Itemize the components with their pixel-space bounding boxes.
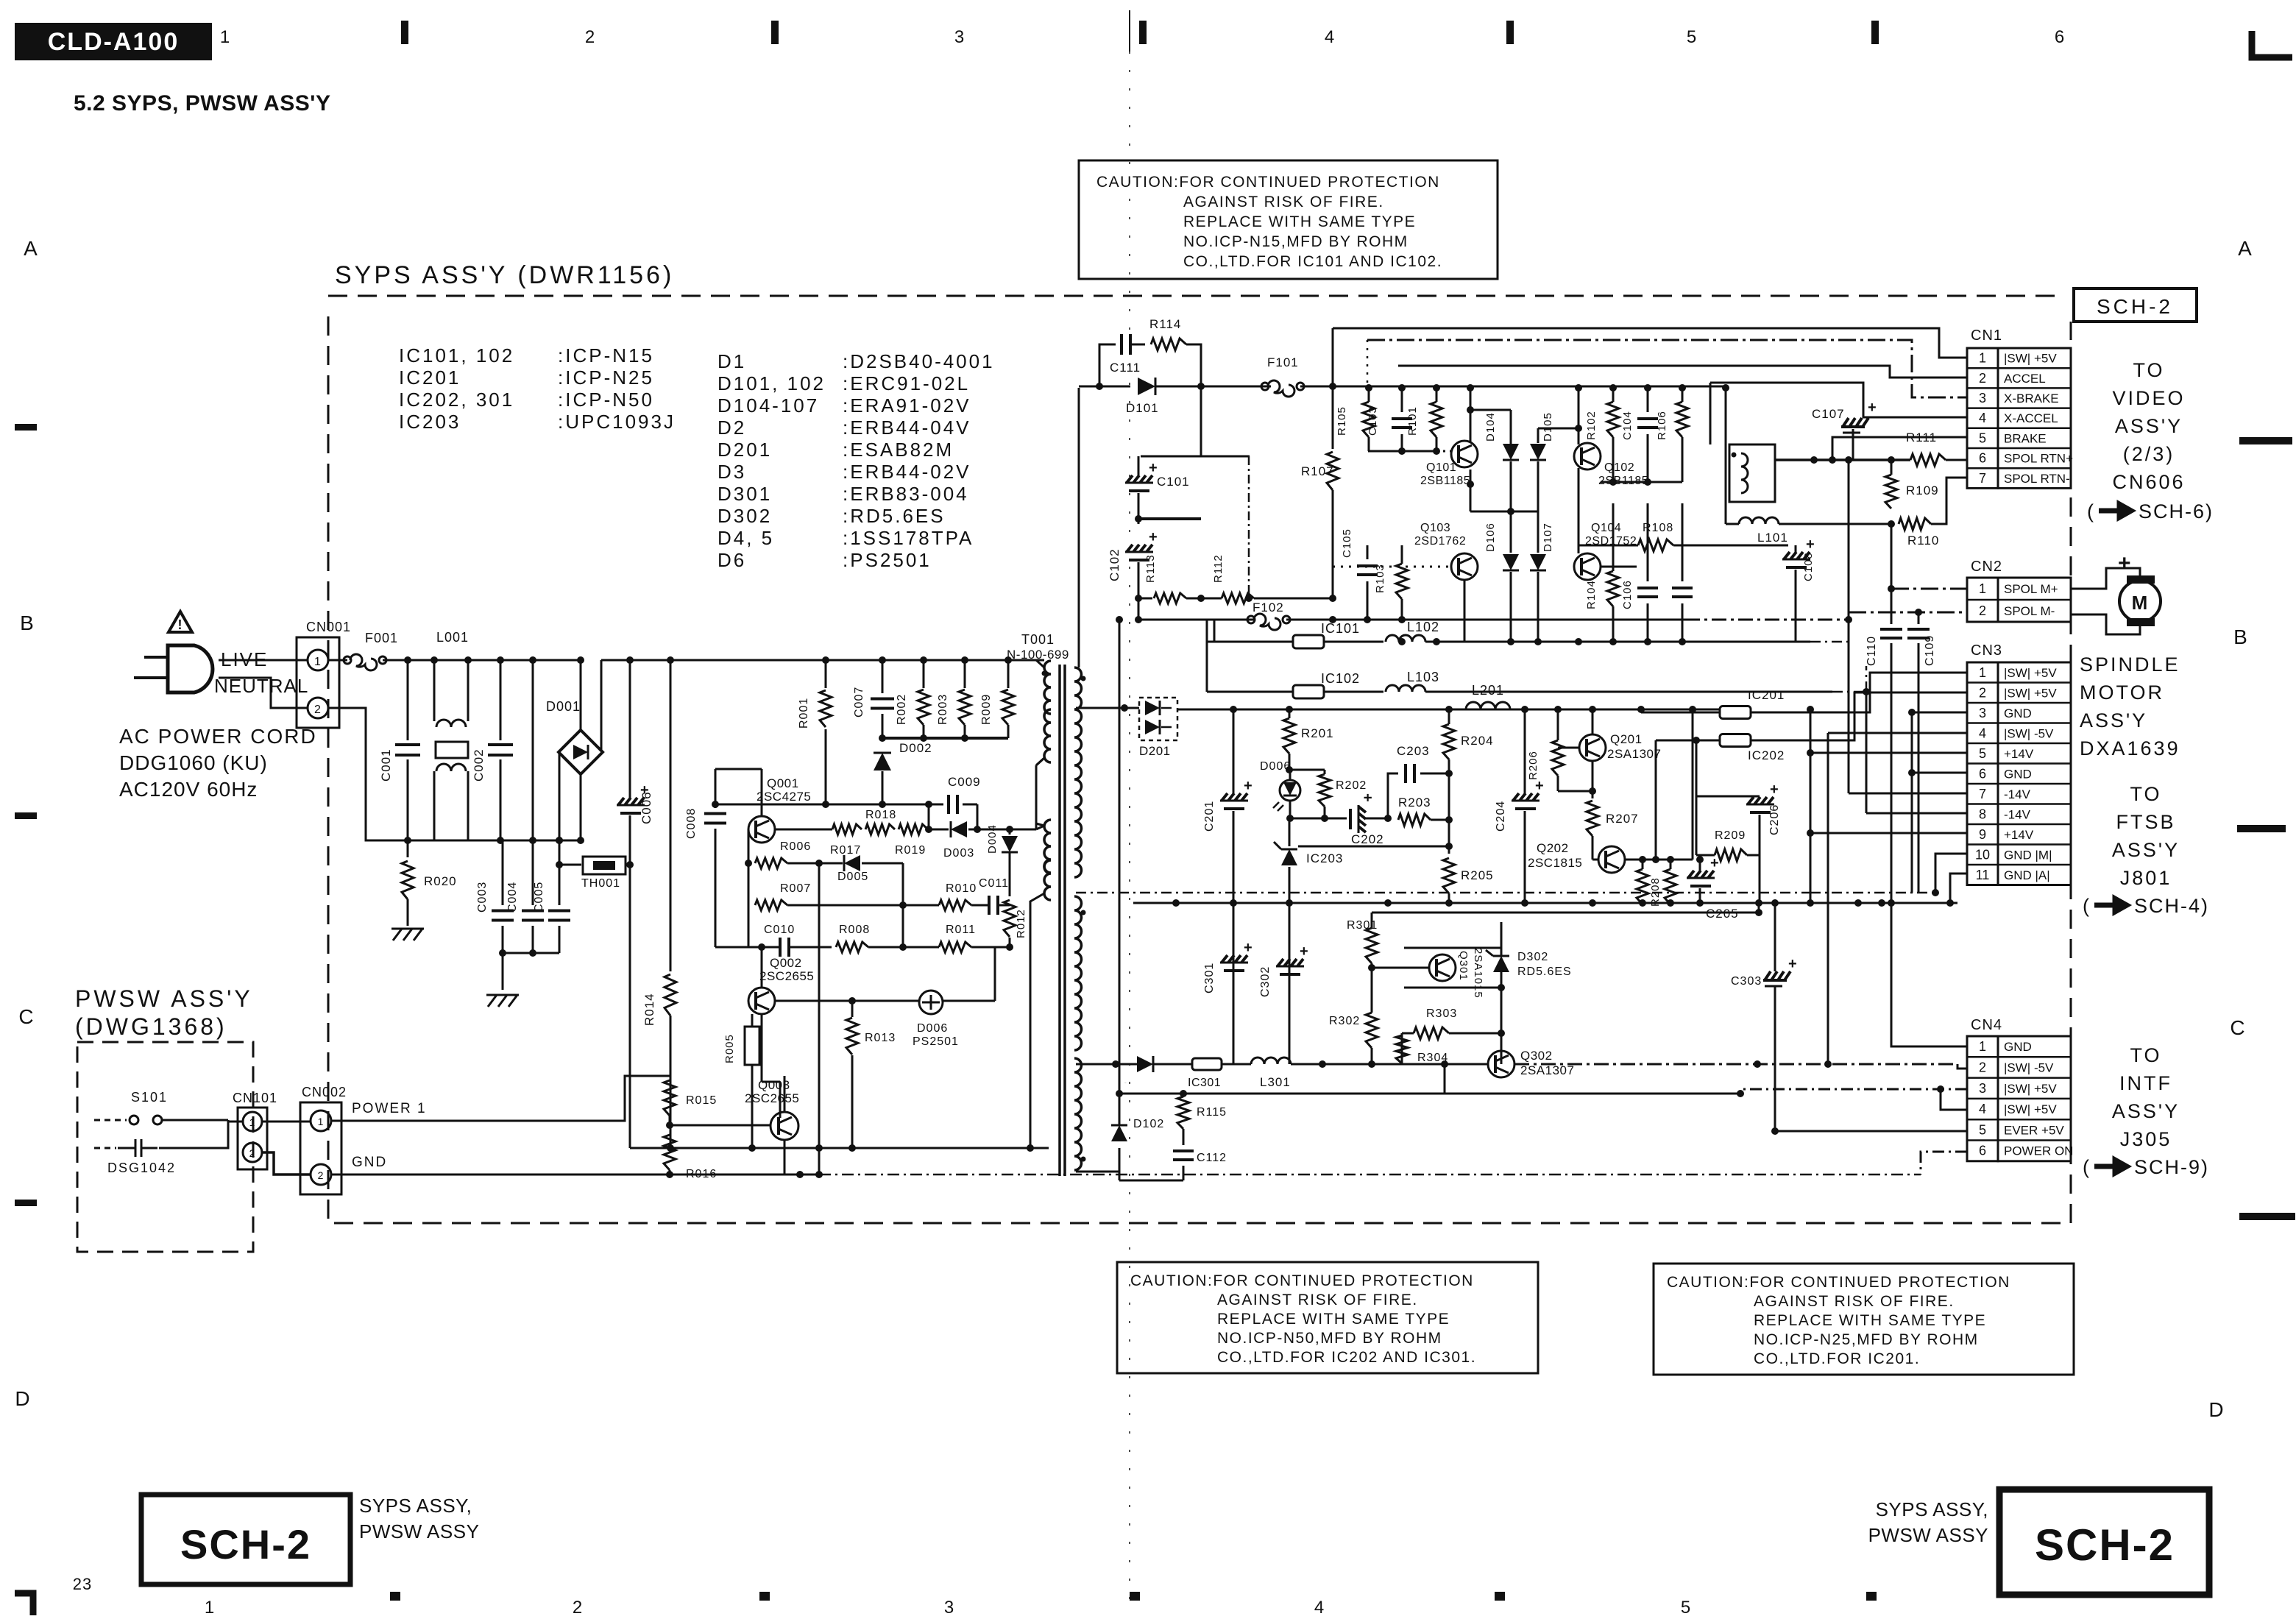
resistor R001: [825, 660, 827, 688]
svg-text:Q002: Q002: [770, 956, 802, 970]
resistor R005: [745, 1027, 759, 1065]
svg-text:R301: R301: [1347, 919, 1378, 932]
wire bridge DC+ up: [600, 660, 603, 751]
svg-text:Q101: Q101: [1426, 461, 1456, 474]
wire bridge AC top: [580, 660, 582, 730]
svg-text:(: (: [2083, 1156, 2090, 1178]
capacitor C202 electrolytic: [1290, 818, 1325, 820]
svg-text:|SW| +5V: |SW| +5V: [2004, 666, 2057, 680]
transformer T001 primary winding 2: [1036, 823, 1044, 826]
transistor Q301 2SA1015: [1429, 954, 1456, 981]
svg-text:NO.ICP-N50,MFD BY ROHM: NO.ICP-N50,MFD BY ROHM: [1217, 1330, 1442, 1347]
phase dots: [1081, 676, 1086, 681]
svg-text:5: 5: [1979, 431, 1986, 445]
svg-text:EVER +5V: EVER +5V: [2004, 1123, 2064, 1137]
GND rail 200: [1076, 892, 1810, 894]
svg-text:+: +: [1806, 536, 1815, 553]
svg-text:R202: R202: [1336, 779, 1367, 792]
capacitor C002: [500, 660, 502, 740]
svg-text:2SB1185: 2SB1185: [1420, 475, 1470, 487]
svg-text:6: 6: [1979, 766, 1986, 781]
wire Q202 collector top: [1692, 709, 1693, 860]
svg-text:+: +: [1149, 529, 1158, 545]
svg-text:23: 23: [73, 1575, 92, 1593]
diode D107: [1530, 554, 1546, 570]
svg-text:Q103: Q103: [1420, 522, 1450, 534]
svg-text::D2SB40-4001: :D2SB40-4001: [843, 350, 995, 372]
svg-text:R203: R203: [1398, 796, 1431, 809]
svg-text:C: C: [2230, 1016, 2245, 1039]
svg-text:D: D: [15, 1387, 30, 1410]
svg-text:J305: J305: [2120, 1128, 2172, 1150]
resistor R201: [1283, 718, 1295, 754]
svg-text:+: +: [1300, 943, 1309, 960]
svg-text:R206: R206: [1527, 751, 1539, 780]
svg-text:(2/3): (2/3): [2123, 443, 2175, 465]
svg-text:R204: R204: [1461, 734, 1494, 748]
upper +SW rail: [1367, 387, 1726, 389]
svg-text:SCH-4): SCH-4): [2134, 895, 2209, 917]
svg-text:C107: C107: [1812, 407, 1845, 421]
shunt regulator IC203: [1289, 818, 1291, 846]
svg-text:NO.ICP-N15,MFD BY ROHM: NO.ICP-N15,MFD BY ROHM: [1183, 233, 1409, 250]
svg-text:TH001: TH001: [581, 877, 620, 890]
wire CN3 pin7 -14V: [1849, 793, 1967, 795]
svg-text:B: B: [2233, 626, 2248, 648]
svg-text:D005: D005: [837, 871, 868, 883]
caution note 1 box: [1079, 160, 1498, 279]
main neutral rail: [366, 840, 581, 842]
svg-text:Q102: Q102: [1604, 461, 1634, 474]
svg-text:D: D: [2208, 1398, 2224, 1421]
svg-text:DXA1639: DXA1639: [2080, 737, 2180, 759]
svg-text:R005: R005: [723, 1034, 736, 1063]
wire bridge bottom: [580, 774, 582, 840]
svg-text:F001: F001: [365, 631, 398, 645]
svg-text:C106: C106: [1621, 580, 1634, 609]
svg-text:R009: R009: [980, 694, 993, 725]
svg-text:A: A: [2238, 237, 2253, 260]
svg-text:C103: C103: [1367, 406, 1379, 436]
svg-text:C007: C007: [853, 687, 865, 718]
svg-text:ASS'Y: ASS'Y: [2112, 839, 2180, 861]
main AC top rail: [408, 659, 581, 662]
thermistor TH001: [559, 864, 581, 866]
wire CN2 pin2 SPOL M-: [1849, 612, 1967, 614]
svg-text:Q302: Q302: [1520, 1049, 1553, 1063]
svg-text:IC203: IC203: [1306, 851, 1343, 865]
wire CN4 pin6 POWER ON: [1921, 1152, 1967, 1175]
svg-text:4: 4: [1314, 1598, 1325, 1618]
svg-text::ERC91-02L: :ERC91-02L: [843, 372, 970, 394]
svg-text:2SC2655: 2SC2655: [759, 969, 814, 983]
wire CN3 pin4 SW-5V: [1828, 732, 1967, 734]
svg-text:C009: C009: [948, 775, 981, 789]
capacitor C204 electrolytic: [1524, 709, 1526, 795]
svg-text:C204: C204: [1495, 801, 1507, 832]
svg-text:AC POWER CORD: AC POWER CORD: [119, 725, 317, 748]
svg-text:SCH-6): SCH-6): [2139, 500, 2214, 522]
svg-text:M: M: [2132, 592, 2149, 614]
transformer core: [1058, 665, 1061, 1176]
svg-text:SYPS ASSY,: SYPS ASSY,: [1876, 1498, 1988, 1520]
svg-text:Q202: Q202: [1537, 841, 1569, 855]
resistor R019: [899, 824, 928, 835]
svg-text:R013: R013: [865, 1032, 896, 1044]
svg-text:8: 8: [1979, 807, 1986, 821]
svg-text:D001: D001: [546, 699, 581, 714]
rectifier D201 dashed box: [1139, 698, 1177, 740]
svg-text:D106: D106: [1484, 522, 1497, 552]
capacitor C009: [928, 804, 930, 829]
svg-text:R104: R104: [1585, 580, 1598, 609]
svg-text:R103: R103: [1374, 564, 1386, 593]
wire CN1 pin2: [1398, 366, 1967, 378]
svg-text:PWSW ASS'Y: PWSW ASS'Y: [75, 985, 253, 1012]
connector CN4 table: [1967, 1036, 1998, 1161]
wire Q104 emitter row R108: [1601, 566, 1637, 568]
svg-text:1: 1: [1979, 581, 1986, 596]
svg-text::1SS178TPA: :1SS178TPA: [843, 527, 974, 549]
svg-text:2SA1307: 2SA1307: [1520, 1063, 1574, 1077]
wire IC203 k: [1289, 846, 1449, 847]
+14 rail 200: [1177, 709, 1726, 711]
svg-text:INTF: INTF: [2119, 1072, 2172, 1094]
svg-text:R017: R017: [830, 844, 861, 857]
D102 branch: [1076, 1171, 1119, 1173]
diode D104: [1503, 444, 1519, 460]
svg-text:B: B: [20, 612, 35, 634]
primary return line: [715, 804, 929, 806]
resistor R017: [775, 829, 832, 831]
svg-text:R002: R002: [896, 694, 908, 725]
svg-text:F102: F102: [1252, 601, 1284, 614]
optocoupler D006 PS2501: [919, 991, 943, 1014]
resistor R114: [1151, 339, 1186, 350]
svg-text::ICP-N25: :ICP-N25: [558, 366, 654, 389]
wire CN2 pin1 SPOL M+: [1891, 588, 1967, 590]
svg-text:AGAINST RISK OF FIRE.: AGAINST RISK OF FIRE.: [1183, 194, 1384, 210]
resistor R102: [1607, 402, 1619, 437]
resistor R007: [748, 863, 750, 905]
vertical links cluster: [818, 863, 821, 1148]
resistor R106: [1676, 402, 1688, 437]
svg-text:+: +: [2118, 551, 2132, 575]
svg-text:2: 2: [1979, 1060, 1986, 1074]
svg-text:A: A: [24, 237, 38, 260]
capacitor C112: [1173, 1149, 1194, 1152]
capacitor C302 electrolytic: [1289, 903, 1291, 1064]
wire CN1 pin4: [1710, 383, 1967, 417]
svg-text:Q001: Q001: [767, 776, 799, 790]
svg-text:D105: D105: [1542, 412, 1554, 442]
svg-text:X-ACCEL: X-ACCEL: [2004, 411, 2058, 425]
svg-text:R113: R113: [1144, 554, 1157, 583]
SCH-2 title box bottom right: [1999, 1489, 2209, 1595]
wire L103 tail: [1832, 691, 1866, 693]
PWSW ASS'Y dashed boundary box: [77, 1042, 253, 1252]
svg-text:|SW| -5V: |SW| -5V: [2004, 1060, 2054, 1074]
secondary +B vertical: [1078, 388, 1080, 667]
svg-text:D006: D006: [917, 1022, 948, 1035]
svg-text:CN3: CN3: [1971, 642, 2002, 659]
wire CN3 pin5 +14V: [1810, 752, 1967, 754]
svg-text:D3: D3: [717, 461, 746, 483]
svg-text:D002: D002: [899, 741, 932, 755]
svg-text:2: 2: [314, 704, 322, 716]
svg-text:C: C: [18, 1005, 34, 1028]
svg-text:R010: R010: [946, 882, 977, 895]
-5V rail 300: [1076, 1063, 1116, 1066]
svg-text:1: 1: [220, 27, 230, 47]
svg-text:4: 4: [1979, 726, 1986, 740]
svg-text:RD5.6ES: RD5.6ES: [1517, 966, 1572, 978]
resistor R107: [1332, 386, 1334, 449]
svg-text:L103: L103: [1407, 670, 1439, 684]
svg-text:CN001: CN001: [306, 620, 351, 634]
svg-text:R115: R115: [1197, 1106, 1227, 1119]
svg-text:5.2 SYPS, PWSW ASS'Y: 5.2 SYPS, PWSW ASS'Y: [74, 91, 330, 116]
svg-text:TO: TO: [2130, 1044, 2161, 1066]
transformer T001 secondary winding: [1074, 667, 1082, 877]
primary half-tap link: [1035, 765, 1038, 829]
heavy L101 output line: [1775, 458, 1910, 461]
svg-text:C108: C108: [1802, 552, 1815, 581]
svg-text:C006: C006: [639, 791, 653, 824]
wire CN3 pin2 SW+5V: [1825, 692, 1967, 740]
svg-text:|SW| +5V: |SW| +5V: [2004, 352, 2057, 366]
resistor R207: [1592, 761, 1594, 798]
svg-text:2: 2: [1979, 685, 1986, 700]
resistor R014: [670, 660, 672, 971]
svg-text:Q201: Q201: [1610, 732, 1643, 746]
svg-text:C011: C011: [979, 877, 1009, 890]
svg-text:R015: R015: [686, 1094, 717, 1107]
svg-text:1: 1: [314, 656, 322, 668]
svg-text:R012: R012: [1015, 909, 1027, 938]
capacitor C003: [502, 840, 504, 905]
svg-text:T001: T001: [1021, 632, 1055, 647]
svg-text:C109: C109: [1924, 635, 1936, 666]
wire CN1 pin3: [1367, 340, 1967, 397]
svg-text:C301: C301: [1203, 963, 1216, 993]
riser bundle to CN3: [1810, 709, 1812, 903]
svg-text:C112: C112: [1197, 1152, 1227, 1164]
center tap dash link: [1810, 892, 1935, 894]
svg-text:(: (: [2087, 500, 2094, 522]
long vertical to D102: [1119, 620, 1121, 1094]
capacitor C206 electrolytic: [1696, 740, 1760, 796]
SCH-2 reference box top right: [2074, 288, 2197, 322]
svg-text:R106: R106: [1656, 411, 1668, 440]
resistor R203: [1398, 814, 1431, 826]
svg-text:C206: C206: [1768, 804, 1781, 835]
svg-text:AGAINST RISK OF FIRE.: AGAINST RISK OF FIRE.: [1217, 1292, 1418, 1308]
wire plug neutral to CN001: [219, 678, 308, 708]
svg-text:2SC4275: 2SC4275: [757, 790, 811, 804]
svg-text:R109: R109: [1906, 483, 1939, 497]
svg-text:1: 1: [249, 1116, 256, 1128]
svg-text:2: 2: [318, 1169, 325, 1181]
resistor R013: [846, 1018, 858, 1055]
svg-text:R101: R101: [1406, 406, 1419, 436]
svg-text:2: 2: [573, 1598, 583, 1618]
svg-text:CAUTION:FOR CONTINUED PROTECTI: CAUTION:FOR CONTINUED PROTECTION: [1667, 1274, 2010, 1291]
fusible IC301: [1192, 1058, 1222, 1070]
svg-text:-14V: -14V: [2004, 787, 2031, 801]
capacitor C201 electrolytic: [1233, 709, 1235, 795]
svg-text:R205: R205: [1461, 868, 1494, 882]
link down: [1203, 620, 1205, 642]
svg-text:DDG1060 (KU): DDG1060 (KU): [119, 751, 268, 774]
svg-text:AC120V 60Hz: AC120V 60Hz: [119, 778, 258, 801]
svg-text:C004: C004: [506, 882, 519, 913]
svg-text:C303: C303: [1731, 975, 1762, 988]
wire 300 feedback top: [1387, 903, 1389, 922]
svg-text:ASS'Y: ASS'Y: [2112, 1100, 2180, 1122]
svg-text:TO: TO: [2133, 359, 2164, 381]
wire POWER1: [331, 1076, 670, 1121]
node B100: [1329, 383, 1336, 390]
svg-text:R011: R011: [946, 924, 976, 936]
svg-text:3: 3: [1979, 1081, 1986, 1096]
resistor R208b: [1665, 869, 1676, 904]
svg-text:+: +: [1788, 956, 1798, 972]
svg-text:1: 1: [318, 1116, 325, 1127]
capacitor C102 electrolytic: [1125, 545, 1153, 560]
svg-text:|SW| -5V: |SW| -5V: [2004, 726, 2054, 740]
svg-text:REPLACE WITH SAME TYPE: REPLACE WITH SAME TYPE: [1217, 1311, 1450, 1328]
capacitor C005: [559, 840, 561, 905]
capacitor C101 electrolytic: [1200, 386, 1202, 456]
svg-text::RD5.6ES: :RD5.6ES: [843, 505, 946, 527]
svg-text:R007: R007: [780, 882, 811, 895]
diode D002: [874, 753, 891, 770]
resistor R011: [939, 942, 971, 952]
svg-text:+: +: [1359, 793, 1375, 803]
svg-text:N-100-699: N-100-699: [1007, 648, 1069, 662]
svg-text:6: 6: [1979, 451, 1986, 466]
resistor R205: [1443, 858, 1455, 893]
resistor R015: [664, 1080, 676, 1116]
diode D301: [1137, 1056, 1153, 1072]
svg-text:C001: C001: [379, 748, 393, 782]
wire CN3 pin9 +14V: [1810, 832, 1967, 835]
wire Q102 base row: [1601, 481, 1682, 483]
svg-text:C203: C203: [1397, 744, 1430, 758]
wire to 1963 riser: [1183, 1064, 1445, 1094]
svg-text:C111: C111: [1110, 361, 1141, 375]
resistor R202: [1289, 769, 1325, 771]
svg-text:PS2501: PS2501: [913, 1035, 959, 1048]
resistor R008: [836, 942, 868, 952]
capacitor C106: [1647, 503, 1649, 581]
svg-text:10: 10: [1975, 847, 1990, 862]
svg-text:(: (: [2083, 895, 2090, 917]
svg-text:4: 4: [1979, 1102, 1986, 1116]
resistor R009: [1007, 660, 1010, 688]
svg-text:D107: D107: [1542, 522, 1554, 552]
wire Q001 collector: [715, 768, 762, 770]
capacitor C007: [882, 660, 884, 693]
svg-text:!: !: [178, 617, 183, 632]
svg-text:CN2: CN2: [1971, 559, 2002, 575]
svg-text:+: +: [1244, 940, 1253, 956]
svg-text:L001: L001: [436, 630, 469, 645]
svg-text:D006: D006: [1260, 760, 1291, 773]
grid ticks left edge: [15, 424, 37, 431]
wire F102 row: [1138, 598, 1140, 620]
capacitor C205 electrolytic: [1687, 871, 1715, 886]
heavy link: [1138, 517, 1201, 520]
svg-text:D104-107: D104-107: [717, 394, 819, 417]
wire GND: [331, 1174, 819, 1176]
svg-text:SYPS ASSY,: SYPS ASSY,: [359, 1495, 472, 1517]
wire Q003 collector: [784, 1076, 786, 1113]
resistor R204: [1443, 724, 1455, 759]
svg-text:C201: C201: [1203, 801, 1216, 832]
diode D003: [951, 821, 967, 837]
svg-text:SCH-2: SCH-2: [2035, 1520, 2175, 1570]
bottom rail 100 block: [1398, 638, 1406, 645]
svg-text:CO.,LTD.FOR IC202 AND IC301.: CO.,LTD.FOR IC202 AND IC301.: [1217, 1349, 1476, 1366]
diode D004: [1009, 829, 1011, 835]
svg-text:+: +: [1868, 400, 1877, 416]
svg-text:R207: R207: [1606, 812, 1639, 826]
svg-text:R111: R111: [1906, 431, 1937, 444]
wire plug live to CN001: [219, 659, 308, 662]
wire rail links: [1448, 893, 1450, 903]
resistor R012: [1004, 900, 1016, 937]
resistor R003: [964, 660, 966, 688]
svg-text:IC101, 102: IC101, 102: [399, 344, 514, 366]
wire CN3 pin11 GND A: [1950, 874, 1967, 903]
svg-text:GND |M|: GND |M|: [2004, 848, 2052, 862]
wire cap commons: [503, 952, 559, 954]
snubber L101 transformer: [1729, 444, 1775, 502]
svg-text:R209: R209: [1715, 829, 1746, 842]
top-right corner mark: [2252, 31, 2292, 57]
resistor R010: [939, 900, 971, 910]
svg-text:C302: C302: [1259, 966, 1272, 997]
wire F102 rail tail: [1685, 619, 1849, 621]
capacitor C301 electrolytic: [1233, 903, 1235, 1064]
svg-text:C202: C202: [1351, 832, 1384, 846]
wire CN3 pin6 GND: [1912, 772, 1967, 774]
capacitor C103: [1401, 388, 1403, 412]
snubber bottom bus: [882, 737, 1008, 740]
resistor R018: [865, 824, 895, 835]
resistor R104: [1607, 571, 1619, 606]
resistor R108: [1638, 539, 1673, 551]
svg-text:D4, 5: D4, 5: [717, 527, 774, 549]
svg-text:D1: D1: [717, 350, 746, 372]
grid ticks top: [401, 21, 408, 44]
svg-text:ASS'Y: ASS'Y: [2115, 415, 2183, 437]
SCH-2 title box bottom left: [141, 1495, 350, 1584]
svg-text:2SC2655: 2SC2655: [745, 1091, 799, 1105]
svg-text:L102: L102: [1407, 620, 1439, 634]
svg-text:2SA1307: 2SA1307: [1607, 747, 1661, 761]
svg-text:R008: R008: [839, 924, 870, 936]
svg-text:CO.,LTD.FOR IC101 AND IC102.: CO.,LTD.FOR IC101 AND IC102.: [1183, 253, 1442, 270]
DC+ rail: [601, 659, 1044, 662]
wire Q302 to CN4 pin2: [1514, 1063, 1957, 1066]
svg-text:R018: R018: [865, 809, 896, 821]
svg-text:IC202, 301: IC202, 301: [399, 389, 514, 411]
svg-text:ASS'Y: ASS'Y: [2080, 709, 2147, 731]
svg-text:1: 1: [1979, 351, 1986, 366]
